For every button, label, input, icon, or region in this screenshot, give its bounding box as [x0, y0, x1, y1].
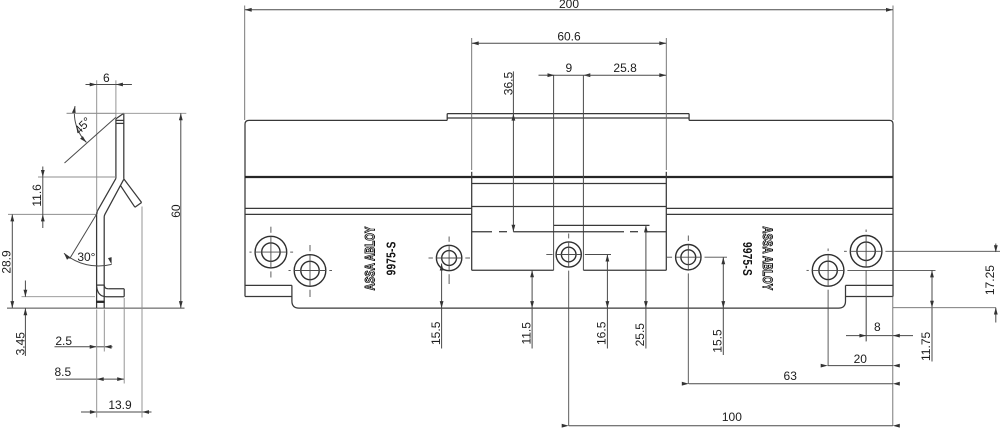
svg-text:11.5: 11.5 [519, 322, 533, 345]
svg-text:28.9: 28.9 [0, 250, 14, 274]
svg-text:15.5: 15.5 [711, 329, 725, 353]
svg-text:8: 8 [874, 320, 881, 334]
svg-text:11.6: 11.6 [30, 184, 44, 207]
svg-text:20: 20 [854, 352, 868, 366]
svg-text:9975-S: 9975-S [384, 241, 399, 275]
svg-text:25.5: 25.5 [633, 323, 647, 347]
svg-text:36.5: 36.5 [502, 71, 516, 95]
svg-text:8.5: 8.5 [54, 365, 71, 379]
svg-text:11.75: 11.75 [919, 332, 933, 361]
svg-text:3.45: 3.45 [13, 332, 27, 356]
svg-text:63: 63 [784, 369, 798, 383]
svg-text:200: 200 [559, 0, 579, 11]
svg-text:60: 60 [169, 204, 183, 218]
svg-text:16.5: 16.5 [595, 321, 609, 345]
svg-text:100: 100 [722, 410, 742, 424]
svg-text:25.8: 25.8 [613, 61, 637, 75]
svg-text:2.5: 2.5 [55, 334, 72, 348]
svg-text:13.9: 13.9 [108, 398, 132, 412]
svg-text:15.5: 15.5 [429, 321, 443, 345]
svg-text:60.6: 60.6 [557, 29, 581, 43]
svg-text:9: 9 [566, 61, 573, 75]
svg-text:30°: 30° [77, 250, 95, 264]
svg-text:9975-S: 9975-S [740, 242, 755, 276]
svg-text:6: 6 [103, 71, 110, 85]
svg-text:17.25: 17.25 [983, 265, 997, 295]
svg-text:ASSA ABLOY: ASSA ABLOY [760, 226, 776, 290]
svg-text:ASSA ABLOY: ASSA ABLOY [362, 226, 378, 290]
